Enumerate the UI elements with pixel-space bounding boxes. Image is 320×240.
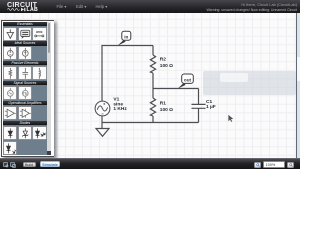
svg-text:R2: R2 [160, 57, 166, 63]
svg-text:100 Ω: 100 Ω [160, 107, 173, 113]
voltage source V1 [95, 101, 110, 116]
wire V1 bottom to ground [101, 116, 103, 129]
wire R2 bottom lead to node out [152, 73, 154, 89]
wire C1 top lead [198, 89, 200, 105]
svg-text:out: out [184, 78, 192, 83]
wire node out horizontal to C1 [153, 88, 199, 90]
svg-text:R1: R1 [160, 101, 166, 107]
wire bottom rail [102, 122, 199, 124]
wire R2 top lead [152, 46, 154, 56]
wire R1 bottom lead [152, 116, 154, 123]
svg-text:100 Ω: 100 Ω [160, 63, 173, 69]
resistor R1 [150, 98, 155, 116]
wire C1 bottom lead [198, 108, 200, 122]
flag in [118, 31, 131, 45]
svg-text:WIRE: WIRE [37, 31, 44, 34]
capacitor C1 [192, 104, 206, 108]
wire top from V1 to R2 branch [102, 46, 153, 102]
mouse cursor [228, 115, 233, 123]
svg-text:1 KHz: 1 KHz [113, 106, 127, 112]
wire R1 top lead [152, 89, 154, 99]
resistor R2 [150, 55, 155, 73]
svg-text:C1: C1 [206, 99, 212, 105]
svg-text:1 µF: 1 µF [206, 104, 216, 110]
ground [96, 129, 109, 137]
svg-text:in: in [124, 35, 128, 40]
flag out [178, 74, 194, 89]
